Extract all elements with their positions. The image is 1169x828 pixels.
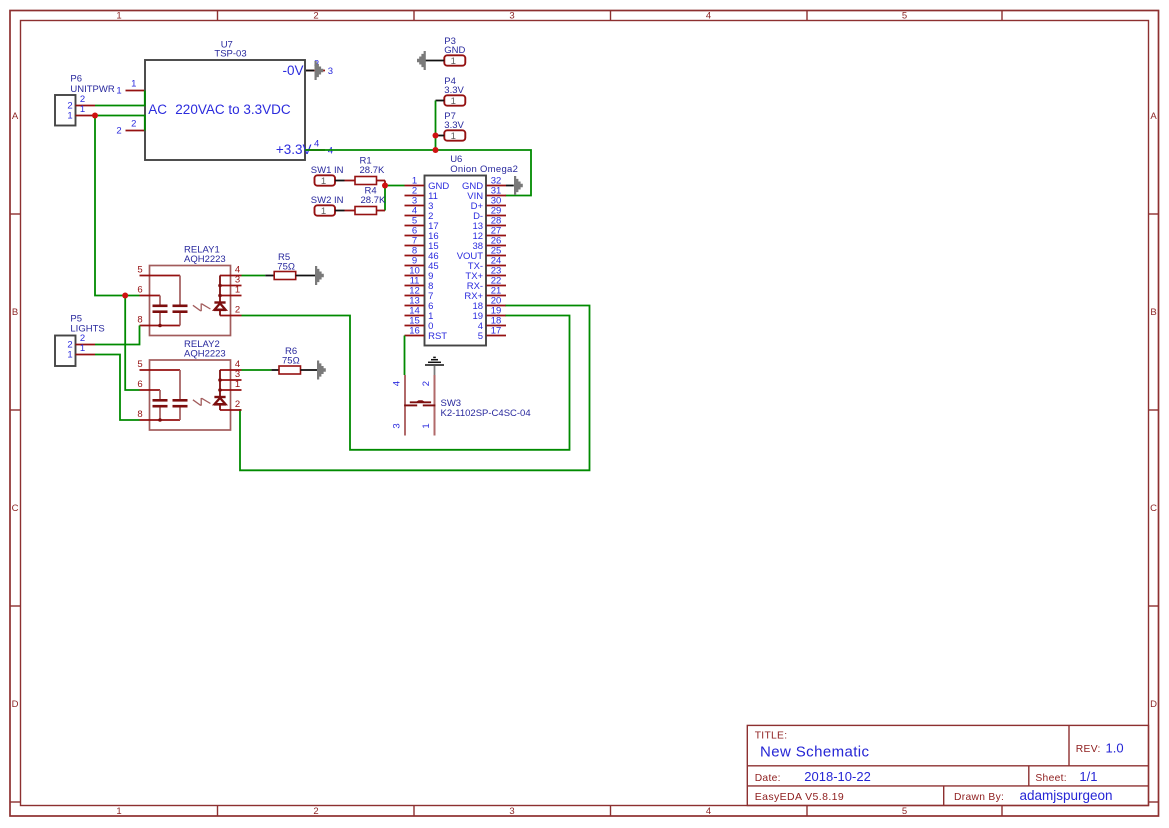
resistor R6 75R (271, 346, 317, 374)
svg-text:16: 16 (409, 325, 420, 336)
svg-text:3: 3 (509, 11, 514, 22)
junction P7 (433, 133, 439, 139)
IC U6 Onion Omega2 (405, 154, 519, 345)
ground flag at R5 (315, 266, 324, 285)
svg-text:4: 4 (706, 11, 711, 22)
connector P4 3.3V (444, 76, 465, 107)
svg-text:B: B (1150, 307, 1156, 318)
svg-text:1: 1 (451, 56, 456, 67)
RELAY2 pin 1 (220, 389, 242, 391)
RELAY2 internal LED caps (179, 370, 181, 400)
svg-text:75Ω: 75Ω (282, 355, 300, 366)
U6 pin 27 (487, 235, 507, 237)
svg-text:3.3V: 3.3V (444, 85, 464, 96)
svg-text:3: 3 (392, 423, 403, 428)
U6 pin 23 (487, 275, 507, 277)
svg-text:2: 2 (313, 806, 318, 817)
svg-text:D: D (12, 699, 19, 710)
svg-text:2: 2 (131, 119, 136, 130)
svg-text:REV:: REV: (1076, 744, 1101, 755)
stub P4 (436, 100, 445, 102)
U7 pin 3 (306, 70, 325, 72)
svg-text:Drawn By:: Drawn By: (954, 792, 1004, 803)
svg-text:1: 1 (131, 79, 136, 90)
svg-text:6: 6 (137, 285, 142, 296)
wire +3.3V bus U7.4 to U6.31 (305, 150, 531, 196)
svg-text:8: 8 (137, 409, 142, 420)
ground flag at R6 (317, 361, 326, 380)
svg-text:LIGHTS: LIGHTS (70, 324, 104, 335)
svg-text:2: 2 (421, 381, 432, 386)
svg-text:1: 1 (451, 96, 456, 107)
junction R1 out (382, 183, 388, 189)
wire R1/R4 junction drop (384, 186, 386, 211)
svg-text:1/1: 1/1 (1079, 769, 1097, 784)
svg-text:C: C (12, 503, 19, 514)
svg-text:75Ω: 75Ω (277, 262, 295, 273)
connector P3 GND (444, 36, 465, 67)
svg-text:1.0: 1.0 (1106, 741, 1124, 756)
U6 pin 24 (487, 265, 507, 267)
svg-text:5: 5 (137, 265, 142, 276)
IC U7 TSP-03 AC-DC module (116, 40, 333, 160)
svg-text:adamjspurgeon: adamjspurgeon (1020, 788, 1113, 803)
U6 pin 29 (487, 215, 507, 217)
ground flag at U6 pin 32 (506, 176, 523, 195)
U6 pin 22 (487, 285, 507, 287)
RELAY2 pin 8 (140, 419, 181, 421)
svg-text:1: 1 (67, 350, 72, 361)
P6 pin 2 (76, 105, 96, 107)
wire U6.16 RST to SW3.4 (404, 336, 406, 376)
svg-text:1: 1 (116, 806, 121, 817)
earth ground at SW3.2 (425, 357, 444, 375)
RELAY1 pin 4 (220, 275, 242, 277)
svg-text:-0V: -0V (282, 63, 303, 78)
RELAY1 pin 5 (140, 275, 181, 277)
U6 pin 15 (405, 325, 425, 327)
svg-text:3: 3 (509, 806, 514, 817)
svg-text:4: 4 (706, 806, 711, 817)
svg-text:3: 3 (328, 66, 333, 77)
U7 pin 4 (306, 149, 325, 151)
connector P7 3.3V (444, 111, 465, 142)
U6 pin 9 (405, 265, 425, 267)
svg-text:1: 1 (116, 11, 121, 22)
U6 pin 17 (487, 335, 507, 337)
U6 pin 19 (487, 315, 507, 317)
svg-text:1: 1 (451, 131, 456, 142)
junction on RELAY1.6 wire (122, 293, 128, 299)
RELAY1 pin 8 (140, 325, 181, 327)
U6 pin 13 (405, 305, 425, 307)
svg-text:5: 5 (902, 11, 907, 22)
svg-text:B: B (12, 307, 18, 318)
svg-text:Sheet:: Sheet: (1035, 773, 1067, 784)
RELAY1 internal LED caps (179, 276, 181, 306)
U6 pin 21 (487, 295, 507, 297)
svg-text:28.7K: 28.7K (361, 195, 386, 206)
svg-text:AQH2223: AQH2223 (184, 254, 226, 265)
U7 pin 1 (126, 90, 145, 92)
svg-text:5: 5 (478, 331, 483, 342)
svg-text:K2-1102SP-C4SC-04: K2-1102SP-C4SC-04 (441, 408, 531, 419)
RELAY1 pin 3 (220, 285, 242, 287)
wire P6.2 to U7.1 (95, 91, 145, 106)
svg-text:2: 2 (313, 11, 318, 22)
relay RELAY2 AQH2223 (137, 339, 241, 430)
svg-text:28.7K: 28.7K (360, 165, 385, 176)
RELAY2 switch mark (193, 400, 201, 406)
svg-text:2: 2 (235, 399, 240, 410)
wire RELAY1.4 to R5 (242, 275, 266, 277)
wire U6.20 to RELAY2.2 loop (240, 306, 590, 471)
U6 pin 30 (487, 205, 507, 207)
svg-text:1: 1 (80, 104, 85, 115)
U6 pin 16 (405, 335, 425, 337)
RELAY2 pin 6 (140, 389, 161, 391)
svg-text:1: 1 (321, 206, 326, 217)
RELAY2 pin 2 (220, 409, 242, 411)
RELAY1 pin 6 (140, 295, 161, 297)
svg-text:Onion Omega2: Onion Omega2 (450, 164, 518, 175)
resistor R5 75R (265, 252, 315, 280)
svg-text:4: 4 (314, 138, 319, 149)
ground flag at U7 pin 3 (306, 61, 323, 80)
svg-text:SW2 IN: SW2 IN (311, 195, 344, 206)
svg-text:1: 1 (321, 176, 326, 187)
svg-text:1: 1 (116, 86, 121, 97)
connector P5 LIGHTS (55, 314, 105, 367)
svg-text:A: A (12, 111, 19, 122)
U6 pin 7 (405, 245, 425, 247)
svg-text:UNITPWR: UNITPWR (70, 84, 114, 95)
svg-text:1: 1 (80, 343, 85, 354)
U6 pin 31 (487, 195, 507, 197)
U6 pin 3 (405, 205, 425, 207)
U6 pin 12 (405, 295, 425, 297)
resistor R4 28.7K (335, 185, 386, 214)
U6 pin 4 (405, 215, 425, 217)
svg-text:Date:: Date: (755, 773, 781, 784)
wire R1 to U6.1 (385, 185, 405, 187)
svg-text:TITLE:: TITLE: (755, 731, 788, 742)
svg-text:EasyEDA V5.8.19: EasyEDA V5.8.19 (755, 791, 844, 803)
U6 pin 20 (487, 305, 507, 307)
U6 pin 10 (405, 275, 425, 277)
svg-text:8: 8 (137, 315, 142, 326)
svg-text:New Schematic: New Schematic (760, 744, 870, 761)
P5 pin 2 (76, 344, 96, 346)
U6 pin 2 (405, 195, 425, 197)
RELAY2 pin 5 (140, 369, 181, 371)
stub P7 (436, 135, 445, 137)
svg-text:3.3V: 3.3V (444, 120, 464, 131)
svg-text:2018-10-22: 2018-10-22 (804, 769, 871, 784)
connector P6 UNITPWR (55, 74, 115, 126)
svg-text:AQH2223: AQH2223 (184, 349, 226, 360)
relay RELAY1 AQH2223 (137, 244, 241, 335)
resistor R1 28.7K (335, 155, 385, 185)
RELAY1 pin 2 (220, 315, 242, 317)
svg-text:5: 5 (137, 359, 142, 370)
svg-text:1: 1 (67, 111, 72, 122)
svg-text:1: 1 (235, 379, 240, 390)
wire P5.2 to RELAY1.8 (95, 326, 140, 345)
title block (747, 725, 1148, 805)
svg-text:C: C (1150, 503, 1157, 514)
svg-text:SW1 IN: SW1 IN (311, 165, 344, 176)
U6 pin 25 (487, 255, 507, 257)
U7 pin 2 (126, 130, 145, 132)
svg-text:GND: GND (444, 45, 465, 56)
P5 pin 1 (76, 354, 96, 356)
U6 pin 26 (487, 245, 507, 247)
U6 pin 6 (405, 235, 425, 237)
RELAY2 pin 3 (220, 379, 242, 381)
U6 pin 14 (405, 315, 425, 317)
junction bus (433, 147, 439, 153)
svg-text:AC: AC (148, 102, 167, 117)
svg-text:5: 5 (902, 806, 907, 817)
svg-text:1: 1 (421, 423, 432, 428)
svg-text:TSP-03: TSP-03 (214, 49, 246, 60)
svg-text:2: 2 (116, 126, 121, 137)
svg-text:1: 1 (235, 285, 240, 296)
svg-text:4: 4 (328, 146, 333, 157)
wire U6.19 to RELAY1.2 loop (242, 316, 570, 450)
svg-text:6: 6 (137, 379, 142, 390)
RELAY1 output triac (219, 276, 221, 303)
connector SW2 IN (311, 195, 344, 217)
U6 pin 18 (487, 325, 507, 327)
U6 pin 32 (487, 185, 507, 187)
U6 pin 1 (405, 185, 425, 187)
wire branch down to RELAY2.6 (125, 296, 139, 391)
svg-text:A: A (1150, 111, 1157, 122)
U6 pin 28 (487, 225, 507, 227)
P6 pin 1 (76, 115, 96, 117)
U6 pin 5 (405, 225, 425, 227)
U6 pin 11 (405, 285, 425, 287)
RELAY1 pin 1 (220, 295, 242, 297)
wire P5.1 to RELAY2.8 (95, 355, 140, 421)
wire RELAY2.4 to R6 (242, 369, 272, 371)
RELAY2 pin 4 (220, 369, 242, 371)
switch SW3 K2-1102SP-C4SC-04 (392, 375, 531, 436)
connector SW1 IN (311, 165, 344, 187)
svg-text:D: D (1150, 699, 1157, 710)
svg-text:17: 17 (491, 325, 502, 336)
junction at P6.1 (92, 113, 98, 119)
ground flag at P3 (417, 51, 444, 70)
wire P6.1 down to RELAY1.6 (95, 116, 140, 296)
svg-text:4: 4 (392, 381, 403, 386)
wire P4/P7 drop (435, 101, 437, 151)
wire P6.1 to U7.2 (95, 116, 145, 131)
svg-text:2: 2 (235, 305, 240, 316)
U6 pin 8 (405, 255, 425, 257)
svg-text:RST: RST (428, 331, 447, 342)
svg-text:220VAC to 3.3VDC: 220VAC to 3.3VDC (175, 102, 291, 117)
RELAY1 switch mark (193, 305, 201, 311)
RELAY2 output triac (219, 370, 221, 397)
